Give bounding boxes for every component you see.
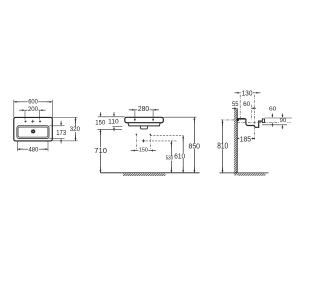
svg-text:610: 610 [174, 151, 185, 160]
svg-text:150: 150 [139, 148, 148, 154]
svg-text:280: 280 [138, 106, 149, 113]
svg-text:130: 130 [242, 89, 253, 98]
svg-text:710: 710 [94, 146, 107, 155]
svg-text:200: 200 [28, 106, 39, 113]
svg-text:55: 55 [232, 101, 239, 108]
svg-text:320: 320 [70, 126, 81, 133]
svg-text:110: 110 [108, 119, 119, 126]
svg-text:150: 150 [95, 119, 105, 126]
svg-text:60: 60 [243, 101, 250, 108]
svg-text:810: 810 [217, 142, 228, 151]
svg-text:530: 530 [166, 155, 173, 161]
svg-text:185: 185 [240, 134, 251, 143]
svg-text:480: 480 [29, 147, 39, 154]
svg-text:60: 60 [269, 106, 276, 112]
svg-text:90: 90 [280, 118, 287, 124]
svg-text:600: 600 [28, 98, 38, 105]
svg-text:850: 850 [189, 142, 201, 151]
svg-text:173: 173 [56, 128, 66, 137]
